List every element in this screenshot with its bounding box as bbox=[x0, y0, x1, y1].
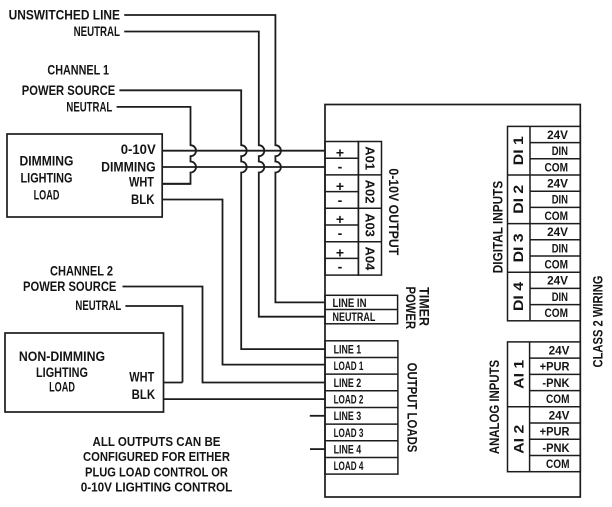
0-10V output terminal block bbox=[325, 142, 382, 276]
digital inputs terminal block bbox=[508, 126, 581, 320]
svg-text:LOAD 1: LOAD 1 bbox=[334, 359, 364, 373]
svg-text:UNSWITCHED LINE: UNSWITCHED LINE bbox=[9, 7, 120, 23]
output loads terminal block bbox=[325, 341, 398, 474]
svg-text:LINE 3: LINE 3 bbox=[334, 409, 362, 423]
svg-text:COM: COM bbox=[545, 306, 569, 320]
wire dimming to A01 minus bbox=[162, 166, 325, 168]
svg-text:POWER SOURCE: POWER SOURCE bbox=[22, 82, 115, 98]
svg-text:DIN: DIN bbox=[552, 144, 568, 158]
svg-text:BLK: BLK bbox=[131, 191, 155, 207]
svg-text:ANALOG INPUTS: ANALOG INPUTS bbox=[486, 360, 502, 454]
svg-text:ALL OUTPUTS CAN BE: ALL OUTPUTS CAN BE bbox=[93, 434, 221, 449]
wire blk ch2 to LOAD 2 bbox=[164, 398, 326, 400]
svg-text:DI 2: DI 2 bbox=[510, 185, 526, 214]
svg-text:COM: COM bbox=[546, 392, 570, 406]
svg-text:DIMMING: DIMMING bbox=[20, 152, 74, 168]
svg-text:-: - bbox=[338, 225, 343, 241]
svg-text:24V: 24V bbox=[547, 128, 568, 142]
svg-text:24V: 24V bbox=[547, 177, 568, 191]
wire ch2 neutral to WHT ch2 bbox=[125, 306, 182, 383]
svg-text:CLASS 2 WIRING: CLASS 2 WIRING bbox=[590, 275, 606, 367]
wire wht ch2 stub bbox=[164, 382, 183, 384]
svg-text:24V: 24V bbox=[547, 225, 568, 239]
svg-text:AI 1: AI 1 bbox=[511, 360, 527, 389]
svg-text:OUTPUT LOADS: OUTPUT LOADS bbox=[405, 363, 421, 453]
svg-text:COM: COM bbox=[546, 457, 570, 471]
svg-text:WHT: WHT bbox=[129, 173, 154, 189]
svg-text:DIGITAL INPUTS: DIGITAL INPUTS bbox=[490, 181, 506, 273]
wire ch1 power source to LINE 1 bbox=[119, 90, 325, 349]
svg-text:DI 4: DI 4 bbox=[510, 282, 526, 311]
wire wht ch1 stub bbox=[162, 183, 190, 185]
svg-text:DI 3: DI 3 bbox=[510, 233, 526, 262]
analog inputs terminal block bbox=[508, 342, 581, 472]
svg-text:24V: 24V bbox=[547, 274, 568, 288]
svg-text:CHANNEL 1: CHANNEL 1 bbox=[47, 62, 109, 78]
svg-text:+PUR: +PUR bbox=[540, 425, 570, 439]
svg-text:LOAD 3: LOAD 3 bbox=[334, 426, 364, 440]
stub wire LINE 3 bbox=[310, 415, 325, 417]
svg-text:BLK: BLK bbox=[132, 386, 156, 402]
svg-text:0-10V LIGHTING CONTROL: 0-10V LIGHTING CONTROL bbox=[81, 479, 233, 494]
svg-text:DIN: DIN bbox=[552, 290, 568, 304]
svg-text:NEUTRAL: NEUTRAL bbox=[74, 23, 121, 39]
svg-text:A04: A04 bbox=[362, 246, 377, 271]
svg-text:-: - bbox=[338, 192, 343, 208]
svg-text:LOAD: LOAD bbox=[49, 378, 75, 394]
svg-text:-: - bbox=[338, 158, 343, 174]
stub wire LINE 4 bbox=[310, 448, 325, 450]
svg-text:LINE 1: LINE 1 bbox=[334, 343, 362, 357]
svg-text:LOAD: LOAD bbox=[34, 186, 60, 202]
svg-text:NON-DIMMING: NON-DIMMING bbox=[19, 348, 105, 364]
svg-text:0-10V: 0-10V bbox=[121, 141, 157, 157]
svg-text:A01: A01 bbox=[362, 146, 377, 170]
wire neutral to NEUTRAL terminal bbox=[124, 32, 325, 317]
wire blk ch1 to LOAD 1 bbox=[162, 200, 325, 365]
svg-text:CHANNEL 2: CHANNEL 2 bbox=[50, 262, 113, 278]
svg-text:24V: 24V bbox=[549, 343, 570, 357]
svg-text:LINE 2: LINE 2 bbox=[334, 376, 362, 390]
svg-text:24V: 24V bbox=[549, 408, 570, 422]
svg-text:LINE IN: LINE IN bbox=[333, 296, 367, 310]
svg-text:LOAD 2: LOAD 2 bbox=[334, 393, 364, 407]
svg-text:LIGHTING: LIGHTING bbox=[21, 170, 73, 186]
svg-text:PLUG LOAD CONTROL OR: PLUG LOAD CONTROL OR bbox=[85, 464, 228, 479]
wire unswitched-line to LINE IN bbox=[124, 15, 325, 302]
dimming lighting load box bbox=[7, 134, 162, 217]
svg-text:NEUTRAL: NEUTRAL bbox=[333, 310, 376, 324]
svg-text:-PNK: -PNK bbox=[542, 376, 569, 390]
svg-text:-PNK: -PNK bbox=[542, 441, 569, 455]
svg-text:AI 2: AI 2 bbox=[511, 425, 527, 454]
wire ch1 neutral to WHT bbox=[117, 107, 196, 184]
svg-text:0-10V OUTPUT: 0-10V OUTPUT bbox=[386, 168, 402, 255]
non-dimming lighting load box bbox=[5, 333, 164, 412]
svg-text:COM: COM bbox=[545, 258, 569, 272]
timer power terminal block bbox=[325, 295, 398, 324]
svg-text:NEUTRAL: NEUTRAL bbox=[66, 99, 112, 115]
timer controller box bbox=[325, 105, 580, 498]
svg-text:+PUR: +PUR bbox=[540, 360, 570, 374]
svg-text:NEUTRAL: NEUTRAL bbox=[75, 297, 121, 313]
svg-text:CONFIGURED FOR EITHER: CONFIGURED FOR EITHER bbox=[83, 449, 230, 464]
svg-text:DIN: DIN bbox=[552, 241, 568, 255]
svg-text:LOAD 4: LOAD 4 bbox=[334, 459, 364, 473]
svg-text:DIN: DIN bbox=[552, 193, 568, 207]
svg-text:DI 1: DI 1 bbox=[510, 136, 526, 165]
svg-text:WHT: WHT bbox=[129, 369, 154, 385]
svg-text:COM: COM bbox=[545, 160, 569, 174]
wire ch2 power source to LINE 2 bbox=[123, 287, 326, 383]
svg-text:COM: COM bbox=[545, 209, 569, 223]
wire 0-10V to A01 plus bbox=[162, 150, 325, 152]
svg-text:A03: A03 bbox=[362, 213, 377, 237]
svg-text:DIMMING: DIMMING bbox=[101, 159, 156, 175]
svg-text:A02: A02 bbox=[362, 180, 377, 204]
svg-text:POWER SOURCE: POWER SOURCE bbox=[23, 278, 116, 294]
svg-text:LINE 4: LINE 4 bbox=[334, 443, 362, 457]
svg-text:-: - bbox=[338, 259, 343, 275]
svg-text:POWER: POWER bbox=[403, 287, 419, 330]
